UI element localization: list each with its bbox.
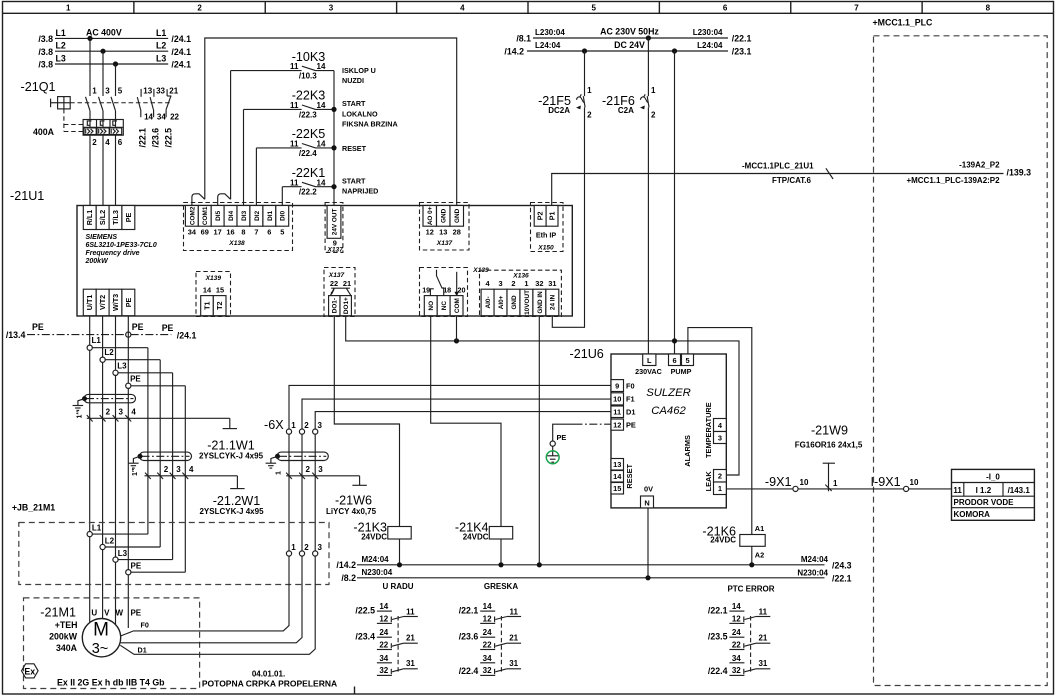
wire L230:04 AC230V rail xyxy=(533,37,728,39)
svg-text:X137: X137 xyxy=(326,246,343,253)
svg-text:11: 11 xyxy=(290,178,299,187)
svg-text:RESET: RESET xyxy=(625,463,634,488)
svg-text:2: 2 xyxy=(106,407,111,416)
terminal 6X:1 xyxy=(286,429,291,434)
svg-text:24VDC: 24VDC xyxy=(463,533,489,542)
svg-text:GND: GND xyxy=(511,295,518,310)
svg-text:32: 32 xyxy=(379,666,388,675)
svg-text:NO: NO xyxy=(428,301,435,311)
cable shield 21.1W1 xyxy=(84,394,136,402)
svg-text:ISKLOP U: ISKLOP U xyxy=(342,66,376,75)
svg-text:-9X1: -9X1 xyxy=(765,475,792,489)
svg-text:14: 14 xyxy=(317,101,326,110)
ethernet cable P1 to PLC xyxy=(552,174,1004,206)
svg-text:13: 13 xyxy=(439,227,447,236)
svg-text:L1: L1 xyxy=(156,28,166,38)
svg-text:14: 14 xyxy=(317,178,326,187)
svg-text:/14.2: /14.2 xyxy=(336,560,356,570)
svg-text:X137: X137 xyxy=(436,240,453,247)
svg-text:32: 32 xyxy=(732,666,741,675)
cable slash mark xyxy=(826,168,833,179)
svg-text:GND IN: GND IN xyxy=(537,291,544,314)
wire LEAK1 to PLC input xyxy=(726,488,951,490)
svg-text:LiYCY 4x0,75: LiYCY 4x0,75 xyxy=(326,507,377,516)
svg-text:COM2: COM2 xyxy=(189,206,196,225)
svg-text:DI4: DI4 xyxy=(228,210,235,220)
svg-text:T/L3: T/L3 xyxy=(111,210,120,225)
svg-text:DC 24V: DC 24V xyxy=(614,40,645,50)
svg-text:8: 8 xyxy=(241,227,245,236)
svg-text:M24:04: M24:04 xyxy=(801,555,829,564)
svg-text:PE: PE xyxy=(32,322,44,332)
junction F5 tap xyxy=(582,48,587,53)
svg-text:5: 5 xyxy=(685,356,689,365)
svg-text:5: 5 xyxy=(591,4,596,13)
svg-text:12: 12 xyxy=(613,420,621,429)
svg-text:22: 22 xyxy=(170,112,179,121)
svg-text:/22.5: /22.5 xyxy=(164,128,174,148)
svg-text:/24.1: /24.1 xyxy=(171,60,191,70)
svg-text:L2: L2 xyxy=(56,41,66,51)
svg-text:34: 34 xyxy=(379,654,388,663)
wire F1 6X2 to pin10 xyxy=(302,399,611,429)
svg-text:L1: L1 xyxy=(92,336,102,345)
svg-text:2: 2 xyxy=(92,138,97,147)
wire COM1 to GND28 top link xyxy=(205,38,457,206)
svg-text:1: 1 xyxy=(92,87,97,96)
analog terminals X136 xyxy=(480,270,562,316)
svg-text:Ex: Ex xyxy=(24,666,35,676)
svg-text:M: M xyxy=(93,620,109,641)
svg-text:Frequency drive: Frequency drive xyxy=(86,250,140,257)
svg-text:1: 1 xyxy=(274,471,283,475)
svg-text:L2: L2 xyxy=(105,536,115,545)
svg-text:11: 11 xyxy=(290,140,299,149)
svg-text:AO 0+: AO 0+ xyxy=(427,206,434,225)
svg-text:14: 14 xyxy=(144,112,153,121)
svg-text:4: 4 xyxy=(105,138,110,147)
svg-text:L3: L3 xyxy=(56,53,66,63)
wire DC24 to pump 6 xyxy=(674,51,676,354)
junction F6 tap xyxy=(646,35,651,40)
svg-text:P1: P1 xyxy=(547,211,556,220)
svg-text:/24.1: /24.1 xyxy=(171,34,191,44)
svg-text:DI3: DI3 xyxy=(241,210,248,220)
wire 6X:1 down to JB xyxy=(288,434,290,551)
svg-text:31: 31 xyxy=(548,279,556,288)
svg-text:14: 14 xyxy=(317,62,326,71)
svg-text:X138: X138 xyxy=(228,240,245,247)
cable -21W9 definition xyxy=(823,462,835,464)
relay output terminals X139 NO NC COM xyxy=(420,268,468,317)
jumper DI5-DI4 xyxy=(218,194,231,206)
svg-text:24 IN: 24 IN xyxy=(550,294,557,310)
svg-text:2: 2 xyxy=(651,111,656,120)
svg-text:/22.1: /22.1 xyxy=(708,606,728,616)
PE earth branch xyxy=(575,423,612,425)
svg-text:4: 4 xyxy=(131,407,136,416)
svg-text:L3: L3 xyxy=(117,361,127,370)
breaker aux contact 33/34 xyxy=(153,89,155,97)
svg-text:CA462: CA462 xyxy=(651,405,686,417)
svg-text:A1: A1 xyxy=(755,524,764,533)
relay coil -21K4 xyxy=(489,527,512,540)
svg-text:2: 2 xyxy=(587,111,592,120)
svg-text:W/T3: W/T3 xyxy=(111,294,120,311)
junction circle L2 in JB xyxy=(100,544,105,549)
svg-text:L230:04: L230:04 xyxy=(693,28,723,37)
terminal L 230VAC xyxy=(643,354,656,366)
svg-text:V/T2: V/T2 xyxy=(98,295,107,310)
svg-text:AC 230V 50Hz: AC 230V 50Hz xyxy=(600,27,659,37)
svg-text:16: 16 xyxy=(226,227,234,236)
svg-text:X150: X150 xyxy=(537,245,554,252)
svg-text:SIEMENS: SIEMENS xyxy=(86,234,118,241)
svg-text:NC: NC xyxy=(441,301,448,311)
svg-text:-6X: -6X xyxy=(264,418,284,432)
svg-text:/22.1: /22.1 xyxy=(138,128,148,148)
svg-text:A2: A2 xyxy=(755,551,764,560)
PE node circle on rail xyxy=(126,332,131,337)
svg-text:10VOUT: 10VOUT xyxy=(524,290,531,315)
svg-text:69: 69 xyxy=(201,227,209,236)
svg-text:U RADU: U RADU xyxy=(382,582,413,591)
svg-text:200kW: 200kW xyxy=(85,258,110,265)
svg-text:34: 34 xyxy=(732,654,741,663)
terminal 14 reset xyxy=(611,471,624,483)
wire N230:04 rail xyxy=(357,577,825,579)
wire GNDIN to M24 xyxy=(538,316,540,565)
svg-text:/24.1: /24.1 xyxy=(171,47,191,57)
relay coil -21K3 xyxy=(388,527,411,540)
svg-text:2: 2 xyxy=(511,279,515,288)
svg-text:6SL3210-1PE33-7CL0: 6SL3210-1PE33-7CL0 xyxy=(86,242,157,249)
terminal 9 F0 xyxy=(611,380,624,392)
svg-text:14: 14 xyxy=(203,285,212,294)
svg-text:12: 12 xyxy=(426,227,434,236)
svg-text:START: START xyxy=(342,177,366,186)
svg-text:9: 9 xyxy=(615,381,619,390)
svg-text:/10.3: /10.3 xyxy=(299,72,317,81)
svg-text:DI1: DI1 xyxy=(267,210,274,220)
svg-text:GRESKA: GRESKA xyxy=(484,582,518,591)
svg-text:COM: COM xyxy=(454,298,461,313)
circuit breaker -21F5 xyxy=(584,51,586,96)
svg-text:PE: PE xyxy=(132,322,144,332)
breaker operator crossed box xyxy=(58,97,71,109)
svg-text:8: 8 xyxy=(986,4,991,13)
junction COM drop xyxy=(454,338,459,343)
svg-text:/22.1: /22.1 xyxy=(832,574,852,584)
wire L3 drop xyxy=(115,64,117,96)
svg-text:-I_0: -I_0 xyxy=(986,473,1000,482)
svg-text:11: 11 xyxy=(759,608,768,617)
svg-text:24: 24 xyxy=(379,628,388,637)
svg-text:L1: L1 xyxy=(92,524,102,533)
junction L3 xyxy=(113,61,118,66)
svg-text:-21Q1: -21Q1 xyxy=(21,80,56,94)
svg-text:/3.8: /3.8 xyxy=(38,47,53,57)
svg-text:L2: L2 xyxy=(104,348,114,357)
thermal overload block xyxy=(83,120,123,136)
wire pump5 to K6 xyxy=(688,328,752,535)
svg-text:3: 3 xyxy=(498,279,502,288)
JB terminal 1 xyxy=(286,551,291,556)
svg-text:3: 3 xyxy=(718,433,722,442)
terminal 1 right xyxy=(714,482,727,495)
motor -21M1 xyxy=(82,619,120,657)
svg-text:11: 11 xyxy=(613,408,621,417)
svg-text:14: 14 xyxy=(732,602,741,611)
wire L24:04 DC24V rail xyxy=(527,50,728,52)
svg-text:/22.1: /22.1 xyxy=(459,606,479,616)
svg-text:15: 15 xyxy=(613,484,621,493)
terminal 6X:3 xyxy=(313,429,318,434)
svg-text:/22.1: /22.1 xyxy=(732,33,752,43)
svg-text:/23.6: /23.6 xyxy=(459,632,479,642)
svg-text:31: 31 xyxy=(758,659,767,668)
svg-text:/8.1: /8.1 xyxy=(516,33,531,43)
svg-text:PE: PE xyxy=(130,609,141,618)
wire PE dash-dot rail xyxy=(27,334,171,336)
svg-text:L230:04: L230:04 xyxy=(535,28,565,37)
breaker pole 1/2 xyxy=(86,97,91,111)
svg-text:1: 1 xyxy=(291,421,296,430)
svg-text:/22.4: /22.4 xyxy=(459,666,479,676)
svg-text:2: 2 xyxy=(306,465,311,474)
digital output terminals X137 DO1- DO1+ xyxy=(324,268,355,317)
svg-text:DI5: DI5 xyxy=(215,210,222,220)
svg-text:/14.2: /14.2 xyxy=(504,46,524,56)
wire L1 400V rail xyxy=(55,37,168,39)
svg-text:RESET: RESET xyxy=(342,144,367,153)
svg-text:AI0+: AI0+ xyxy=(498,295,505,309)
svg-text:PE: PE xyxy=(124,297,133,307)
svg-text:2: 2 xyxy=(304,421,309,430)
svg-text:U/T1: U/T1 xyxy=(85,295,94,311)
svg-text:+MCC1.1_PLC-139A2:P2: +MCC1.1_PLC-139A2:P2 xyxy=(906,176,1000,185)
JB terminal 3 xyxy=(313,551,318,556)
svg-text:7: 7 xyxy=(254,227,258,236)
svg-text:C2A: C2A xyxy=(618,106,634,115)
svg-text:15: 15 xyxy=(216,285,224,294)
wire D1 6X3 to pin11 xyxy=(315,412,611,429)
svg-text:34: 34 xyxy=(483,654,492,663)
svg-text:KOMORA: KOMORA xyxy=(954,510,991,519)
terminal 2 right xyxy=(714,470,727,483)
svg-text:19: 19 xyxy=(422,286,430,295)
svg-text:6: 6 xyxy=(267,227,271,236)
svg-text:21: 21 xyxy=(343,279,351,288)
svg-text:NUZDI: NUZDI xyxy=(342,76,364,85)
contact -10K3 rung xyxy=(230,71,232,200)
svg-text:U: U xyxy=(91,609,97,618)
svg-text:START: START xyxy=(342,99,366,108)
svg-text:/23.5: /23.5 xyxy=(708,632,728,642)
Ex hexagon xyxy=(22,664,39,678)
svg-text:/13.4: /13.4 xyxy=(6,330,26,340)
svg-text:3: 3 xyxy=(329,4,334,13)
svg-text:TEMPERATURE: TEMPERATURE xyxy=(704,402,713,458)
ethernet port X150 P2 P1 xyxy=(531,203,564,252)
svg-text:DI2: DI2 xyxy=(254,210,261,220)
svg-text:N: N xyxy=(644,498,649,507)
wire W/T3 to motor W xyxy=(115,316,117,625)
svg-text:2YSLCYK-J 4x95: 2YSLCYK-J 4x95 xyxy=(199,452,264,461)
svg-text:AI0-: AI0- xyxy=(485,296,492,308)
wire PE to motor PE xyxy=(127,316,129,628)
PLC input table -I_0 xyxy=(952,469,1035,520)
svg-text:6: 6 xyxy=(723,4,728,13)
svg-text:1″: 1″ xyxy=(75,411,84,419)
svg-text:12: 12 xyxy=(483,614,492,623)
svg-text:34: 34 xyxy=(157,112,166,121)
svg-text:31: 31 xyxy=(406,659,415,668)
svg-text:31: 31 xyxy=(509,659,518,668)
cable shield 21.2W1 xyxy=(140,452,192,460)
svg-text:230VAC: 230VAC xyxy=(635,367,662,376)
svg-text:24VDC: 24VDC xyxy=(361,533,387,542)
cable definition line xyxy=(87,417,230,419)
svg-text:7: 7 xyxy=(854,4,859,13)
svg-text:PRODOR VODE: PRODOR VODE xyxy=(954,498,1015,507)
svg-text:N230:04: N230:04 xyxy=(797,569,828,578)
svg-text:-21.2W1: -21.2W1 xyxy=(213,494,261,508)
svg-text:-21.1W1: -21.1W1 xyxy=(207,439,255,453)
svg-text:+MCC1.1_PLC: +MCC1.1_PLC xyxy=(873,18,934,28)
terminal 24V OUT X137 xyxy=(325,203,343,253)
svg-text:/23.1: /23.1 xyxy=(732,46,752,56)
wire F5 to 24IN xyxy=(552,118,584,327)
svg-text:L24:04: L24:04 xyxy=(535,41,561,50)
svg-text:DI0: DI0 xyxy=(280,210,287,220)
svg-text:14: 14 xyxy=(483,602,492,611)
svg-text:32: 32 xyxy=(535,279,543,288)
motor dashed box xyxy=(24,598,200,689)
svg-text:24: 24 xyxy=(483,628,492,637)
svg-text:L1: L1 xyxy=(56,28,66,38)
terminal strip X138 group xyxy=(184,203,293,251)
terminal 10 F1 xyxy=(611,393,624,405)
junction L1 xyxy=(87,36,92,41)
svg-text:3: 3 xyxy=(318,421,323,430)
tap L1 parallel feeder xyxy=(90,347,148,349)
wire L2 drop xyxy=(102,51,104,96)
svg-text:/139.3: /139.3 xyxy=(1007,168,1032,178)
svg-text:/22.4: /22.4 xyxy=(299,149,317,158)
breaker pole 3/4 xyxy=(99,97,104,111)
svg-text:-139A2_P2: -139A2_P2 xyxy=(959,161,1000,170)
svg-text:11: 11 xyxy=(290,62,299,71)
svg-text:14: 14 xyxy=(379,602,388,611)
svg-text:LOKALNO: LOKALNO xyxy=(342,109,378,118)
svg-text:FIKSNA BRZINA: FIKSNA BRZINA xyxy=(342,119,398,128)
svg-text:SULZER: SULZER xyxy=(646,387,691,399)
terminal 3 right xyxy=(714,432,727,444)
wire F0 6X1 to pin9 xyxy=(289,385,611,429)
svg-text:S/L2: S/L2 xyxy=(98,210,107,225)
svg-text:T1: T1 xyxy=(202,301,211,309)
svg-text:/3.8: /3.8 xyxy=(38,60,53,70)
svg-text:200kW: 200kW xyxy=(49,632,78,642)
wire F6 to L terminal xyxy=(647,118,649,354)
svg-text:4: 4 xyxy=(460,4,465,13)
junction circle L3 in JB xyxy=(113,557,118,562)
svg-text:5: 5 xyxy=(118,87,123,96)
svg-text:1: 1 xyxy=(524,279,528,288)
svg-text:3: 3 xyxy=(119,407,124,416)
svg-text:2YSLCYK-J 4x95: 2YSLCYK-J 4x95 xyxy=(199,507,264,516)
svg-text:20: 20 xyxy=(458,286,466,295)
tap L3 parallel feeder xyxy=(116,372,173,374)
contact -22K3 rung xyxy=(243,109,245,205)
wire DO1- to K3 coil xyxy=(334,316,399,527)
cable shield 21W6 xyxy=(277,452,328,460)
svg-text:24: 24 xyxy=(732,628,741,637)
svg-text:3~: 3~ xyxy=(92,641,109,657)
jumper COM2-COM1 xyxy=(192,194,205,206)
svg-text:10: 10 xyxy=(613,395,621,404)
svg-text:/22.5: /22.5 xyxy=(355,606,375,616)
wire L2 400V rail xyxy=(55,50,168,52)
svg-text:1: 1 xyxy=(291,543,296,552)
svg-text:-21U1: -21U1 xyxy=(10,189,44,203)
svg-text:04.01.01.: 04.01.01. xyxy=(252,670,285,679)
svg-text:28: 28 xyxy=(453,227,461,236)
svg-text:T2: T2 xyxy=(215,301,224,309)
svg-text:11: 11 xyxy=(406,608,415,617)
svg-text:/8.2: /8.2 xyxy=(341,573,356,583)
terminal 13 reset xyxy=(611,459,624,471)
svg-text:13: 13 xyxy=(143,87,152,96)
svg-text:V: V xyxy=(104,609,110,618)
svg-text:/24.1: /24.1 xyxy=(177,330,197,340)
wire motor D1 xyxy=(120,556,315,654)
svg-text:2: 2 xyxy=(164,465,169,474)
svg-text:PE: PE xyxy=(124,213,133,223)
svg-text:L3: L3 xyxy=(156,53,166,63)
svg-text:10: 10 xyxy=(800,478,809,487)
svg-text:GND: GND xyxy=(441,208,448,223)
terminal 12 PE xyxy=(611,419,624,430)
svg-text:21: 21 xyxy=(509,634,518,643)
svg-text:-MCC1.1PLC_21U1: -MCC1.1PLC_21U1 xyxy=(742,162,814,171)
svg-text:I-9X1: I-9X1 xyxy=(871,475,901,489)
tap L2 parallel feeder xyxy=(103,359,161,361)
svg-text:11: 11 xyxy=(953,486,962,495)
svg-text:21: 21 xyxy=(758,634,767,643)
terminals AO0+ GND GND X137 xyxy=(420,203,470,251)
svg-text:22: 22 xyxy=(379,640,388,649)
svg-text:6: 6 xyxy=(672,356,676,365)
terminal 5 pump xyxy=(682,354,694,366)
green earth symbol xyxy=(546,451,559,464)
wire 6X:3 down to JB xyxy=(314,434,316,551)
PLC cabinet dashed box +MCC1.1_PLC xyxy=(874,36,1048,686)
svg-text:+JB_21M1: +JB_21M1 xyxy=(12,503,55,513)
svg-text:ALARMS: ALARMS xyxy=(683,435,692,467)
svg-text:1: 1 xyxy=(587,86,592,95)
svg-text:3: 3 xyxy=(318,543,323,552)
svg-text:400A: 400A xyxy=(33,127,55,137)
svg-text:P2: P2 xyxy=(536,211,545,220)
svg-text:LEAK: LEAK xyxy=(704,471,713,492)
terminal 6X:2 xyxy=(299,429,304,434)
svg-text:24V OUT: 24V OUT xyxy=(331,208,338,235)
wire 6X:2 down to JB xyxy=(301,434,303,551)
svg-text:/22.4: /22.4 xyxy=(708,666,728,676)
svg-text:4: 4 xyxy=(189,465,194,474)
